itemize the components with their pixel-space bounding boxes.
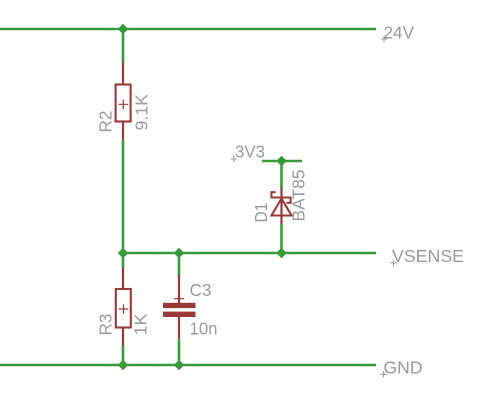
svg-text:D1: D1 [251,203,271,223]
diode D1 triangle [272,199,292,216]
wire GND rail [0,364,376,367]
net label 24V cross [381,36,387,42]
net label VSENSE cross [390,260,396,266]
junction GND / R3 [119,361,128,370]
resistor R3 body [116,289,131,328]
net label GND cross [380,371,386,377]
junction 24V / R2 [119,25,128,34]
capacitor C3 bottom plate [163,312,196,317]
resistor R2 body [116,85,131,122]
diode D1 cathode bar [271,196,292,198]
wire VSENSE rail [123,252,376,255]
resistor R2 pin 2 [122,121,124,141]
wire C3 top vertical [178,253,181,276]
wire R2 top vertical [122,29,125,63]
wire C3 bottom vertical [178,339,181,366]
diode D1 anode pin [280,188,282,225]
svg-text:10n: 10n [190,319,218,339]
diode D1 cathode left hook [271,192,275,197]
junction VSENSE / C3 [175,249,184,258]
svg-text:GND: GND [384,358,423,378]
svg-text:1K: 1K [131,313,151,335]
svg-text:9.1K: 9.1K [132,94,152,131]
wire R3 top vertical [122,253,125,269]
resistor R3 pin 2 [122,327,124,346]
svg-text:3V3: 3V3 [235,142,265,162]
svg-text:24V: 24V [384,23,415,43]
svg-text:R2: R2 [96,111,116,133]
wire 3V3 stub [262,160,302,163]
wire R3 bottom vertical [122,346,125,366]
svg-text:R3: R3 [96,314,116,336]
resistor R2 pin 1 [122,63,124,86]
resistor R3 origin cross [119,304,129,314]
svg-text:C3: C3 [190,280,212,300]
net label 3V3 cross [231,156,237,162]
capacitor C3 pin 1 [178,275,180,303]
svg-text:VSENSE: VSENSE [392,246,464,266]
wire 24V rail [0,28,376,31]
resistor R2 origin cross [119,100,129,110]
capacitor C3 top plate [163,303,196,308]
junction VSENSE / R2 R3 [119,249,128,258]
junction GND / C3 [175,361,184,370]
resistor R3 pin 1 [122,268,124,290]
capacitor C3 pin 2 [178,317,180,339]
svg-text:BAT85: BAT85 [289,170,309,222]
capacitor C3 origin cross [174,293,185,304]
wire R2 bottom to VSENSE [122,141,125,254]
wire D1 bottom vertical [280,224,283,253]
wire D1 top vertical [280,161,283,189]
diode D1 cathode right hook [286,198,290,203]
junction 3V3 / D1 [277,157,286,166]
junction VSENSE / D1 [277,249,286,258]
